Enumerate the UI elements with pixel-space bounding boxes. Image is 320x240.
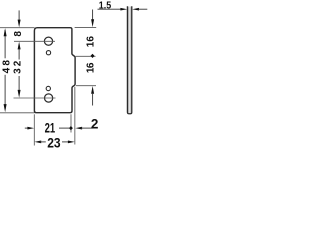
svg-text:21: 21 xyxy=(45,121,56,136)
dimension 23 left arrow xyxy=(34,141,41,144)
dimension 2 arrow xyxy=(75,127,82,130)
extension line top-left xyxy=(0,27,35,29)
svg-text:2: 2 xyxy=(91,116,99,131)
plate outline (front view) xyxy=(34,28,75,113)
dimension 1.5 left arrow xyxy=(98,8,122,10)
hole small top xyxy=(46,51,50,55)
svg-text:48: 48 xyxy=(2,60,13,74)
centerline bottom hole xyxy=(14,97,56,99)
hole small bottom xyxy=(46,86,50,90)
dimension 8/32 shared up arrow at hole centerline xyxy=(18,42,21,50)
extension line step2 right xyxy=(76,85,96,87)
dimension 48 bottom arrow xyxy=(4,104,7,112)
svg-text:8: 8 xyxy=(13,31,24,37)
svg-text:23: 23 xyxy=(47,136,61,149)
hole big top xyxy=(44,37,52,45)
svg-text:16: 16 xyxy=(86,36,97,48)
dimension 48 top arrow xyxy=(4,28,7,36)
extension line lower-right-edge down xyxy=(70,114,72,132)
dimension 21 left arrow xyxy=(25,127,29,129)
dimension 21 line right piece xyxy=(59,127,69,129)
centerline top hole xyxy=(14,40,55,42)
dimension 23 right arrow xyxy=(62,141,69,143)
diamond junction 21/2 xyxy=(69,126,73,130)
extension line step1 right xyxy=(76,55,96,57)
extension line top-right xyxy=(75,26,97,28)
right chain: up arrow at step2 xyxy=(91,86,94,94)
dimension 32 line lower part xyxy=(18,76,20,91)
dimension 1.5 right arrow xyxy=(132,8,139,11)
dimension 8 upper arrow (points down to top edge) xyxy=(18,10,20,20)
right chain: down arrow to top edge xyxy=(92,10,94,20)
svg-text:1.5: 1.5 xyxy=(99,1,112,12)
svg-text:32: 32 xyxy=(13,60,24,74)
extension line bulge down xyxy=(74,87,76,145)
extension line bottom-left xyxy=(0,112,35,114)
right chain: diamond at step1 xyxy=(91,54,95,58)
dimension 48 line xyxy=(4,30,6,58)
hole big bottom xyxy=(45,94,53,102)
svg-text:16: 16 xyxy=(86,62,97,73)
extension line left-edge down xyxy=(33,114,35,145)
side view bar outline xyxy=(127,6,131,114)
dimension 32 bottom arrow xyxy=(18,90,21,98)
